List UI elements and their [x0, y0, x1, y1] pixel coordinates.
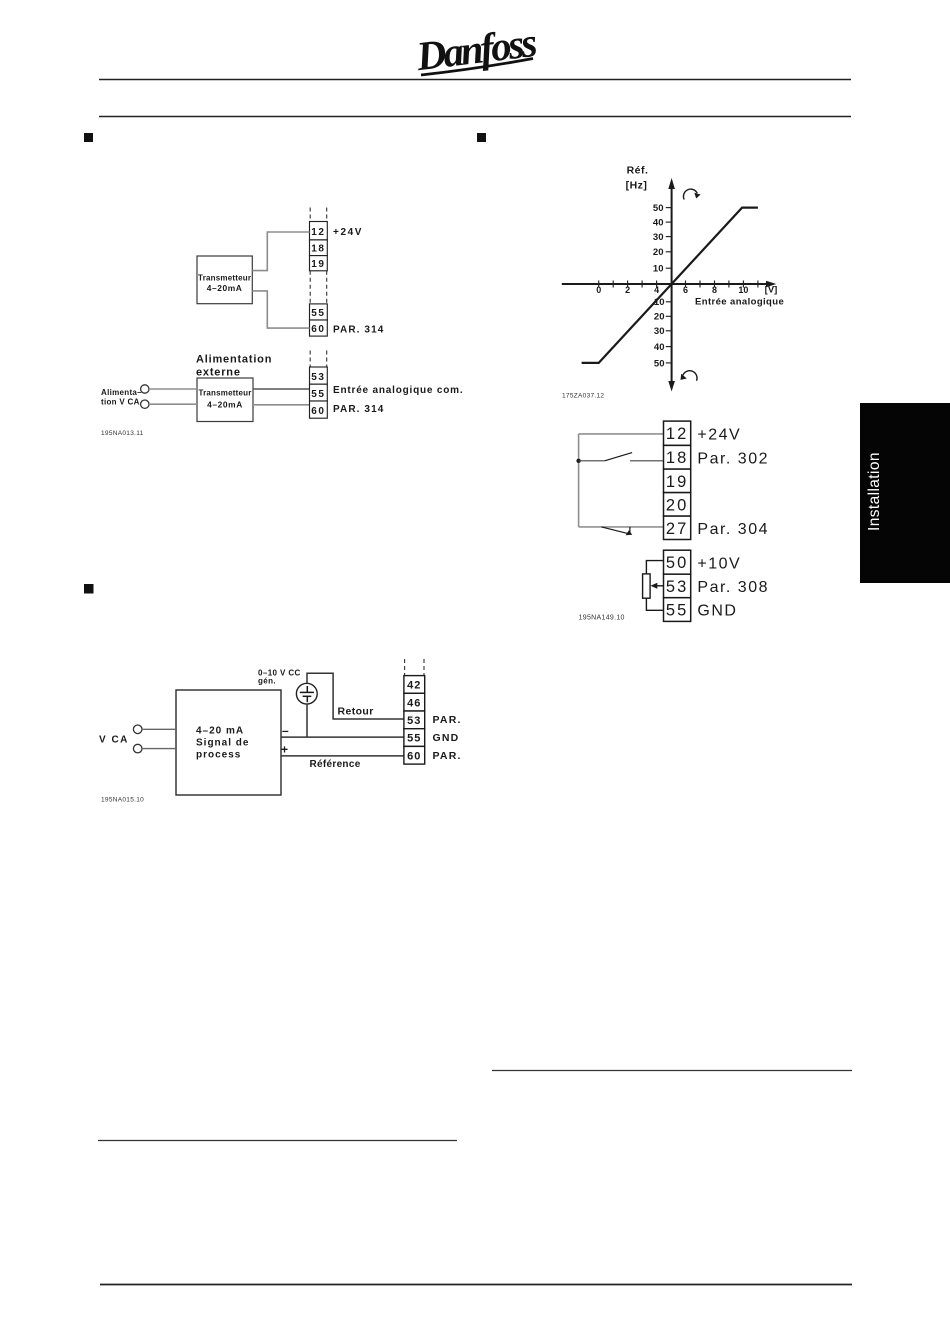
svg-text:Alimenta–: Alimenta–	[101, 388, 142, 397]
svg-text:60: 60	[311, 406, 325, 417]
svg-text:externe: externe	[196, 367, 241, 379]
svg-text:18: 18	[666, 449, 688, 467]
y-axis	[668, 178, 675, 392]
terminal strip D1 dashed middle	[310, 271, 327, 304]
svg-text:40: 40	[654, 342, 665, 353]
terminal 60 (D3)	[404, 746, 425, 764]
svg-text:4–20 mA: 4–20 mA	[196, 726, 244, 737]
input circle lower	[133, 744, 142, 753]
wire generator bottom	[306, 704, 308, 737]
terminal 55 (right)	[664, 598, 691, 622]
terminal 53 (right)	[664, 574, 691, 598]
svg-text:60: 60	[311, 324, 325, 335]
svg-text:55: 55	[407, 733, 421, 745]
terminal 46	[404, 693, 425, 711]
label Alimentation externe	[196, 354, 272, 379]
svg-text:0: 0	[596, 285, 601, 295]
rotation arrow bottom	[681, 371, 698, 381]
svg-text:+10V: +10V	[697, 555, 741, 572]
terminal 53 (D2)	[310, 367, 328, 384]
terminal 12 (right)	[664, 421, 691, 445]
svg-text:[Hz]: [Hz]	[626, 180, 648, 192]
terminal 18 (right)	[664, 445, 691, 469]
transmitter box D2	[197, 378, 253, 422]
svg-text:195NA149.10: 195NA149.10	[579, 615, 625, 622]
process box	[176, 690, 281, 795]
svg-text:4: 4	[654, 285, 659, 295]
svg-text:process: process	[196, 750, 241, 761]
bullet square right	[477, 133, 486, 142]
terminal 55 (D2)	[310, 384, 328, 401]
svg-text:60: 60	[407, 750, 421, 762]
svg-text:10: 10	[653, 264, 664, 275]
rotation arrow top	[683, 189, 700, 199]
y tick labels negative	[654, 297, 665, 369]
svg-text:Signal de: Signal de	[196, 738, 249, 749]
svg-text:50: 50	[654, 358, 665, 369]
terminal 19	[310, 256, 328, 271]
terminal strip D1 dashed top	[310, 208, 327, 222]
svg-text:30: 30	[654, 326, 665, 337]
wire D2 circle2-box	[149, 403, 197, 405]
svg-text:53: 53	[311, 372, 325, 383]
junction dot	[576, 459, 580, 463]
y tick marks	[666, 208, 672, 363]
x tick marks	[599, 281, 758, 288]
terminal strip D2 dashed top	[310, 351, 327, 368]
svg-text:12: 12	[311, 227, 325, 238]
svg-text:19: 19	[666, 473, 688, 491]
axis label Ref [Hz]	[626, 165, 649, 192]
svg-text:GND: GND	[433, 732, 460, 744]
header rule top	[99, 79, 851, 81]
svg-text:Entrée analogique com.: Entrée analogique com.	[333, 385, 463, 396]
svg-text:+24V: +24V	[697, 426, 741, 443]
Installation side tab	[860, 403, 950, 583]
svg-text:Transmetteur: Transmetteur	[198, 389, 251, 398]
x-axis	[562, 281, 777, 288]
svg-text:55: 55	[311, 389, 325, 400]
wire VCA lower	[142, 748, 176, 750]
svg-text:–: –	[282, 724, 289, 738]
potentiometer	[643, 561, 664, 611]
svg-text:20: 20	[653, 247, 664, 258]
svg-text:PAR.: PAR.	[433, 750, 462, 762]
svg-text:Par. 308: Par. 308	[697, 579, 769, 596]
svg-text:50: 50	[653, 203, 664, 214]
svg-text:Réf.: Réf.	[627, 165, 649, 177]
bullet square left 2	[84, 584, 94, 594]
svg-text:tion V CA: tion V CA	[101, 398, 140, 407]
footnote rule left column	[98, 1140, 457, 1142]
svg-text:gén.: gén.	[258, 677, 276, 686]
svg-text:12: 12	[666, 425, 688, 443]
switch 27	[579, 527, 664, 535]
DC generator symbol	[296, 683, 317, 704]
plus wire to 60	[281, 755, 404, 757]
svg-text:20: 20	[654, 312, 665, 323]
wire 12 horizontal	[579, 433, 664, 435]
svg-text:[V]: [V]	[765, 285, 778, 296]
wire D1 upper	[252, 232, 309, 271]
svg-text:53: 53	[666, 578, 688, 596]
Danfoss logo	[413, 19, 539, 79]
terminal 27 (right)	[664, 516, 691, 539]
supply circle lower	[141, 400, 149, 408]
wire generator top to 53	[307, 673, 404, 719]
supply circle upper	[141, 385, 149, 393]
svg-text:50: 50	[666, 554, 688, 572]
svg-text:Entrée analogique: Entrée analogique	[695, 297, 784, 308]
wire +24V bus vertical	[578, 434, 580, 527]
svg-text:+24V: +24V	[333, 227, 363, 238]
terminal 55	[310, 304, 328, 320]
wire VCA upper	[142, 728, 176, 730]
svg-text:195NA013.11: 195NA013.11	[101, 430, 144, 437]
svg-text:GND: GND	[697, 603, 737, 620]
terminal 42	[404, 676, 425, 694]
svg-text:30: 30	[653, 232, 664, 243]
label 0-10 V CC gen	[258, 669, 301, 686]
svg-text:Référence: Référence	[310, 759, 361, 770]
svg-text:Installation: Installation	[866, 452, 883, 531]
svg-text:40: 40	[653, 218, 664, 229]
terminal 60	[310, 320, 328, 336]
svg-text:20: 20	[666, 496, 688, 514]
svg-text:Transmetteur: Transmetteur	[198, 274, 251, 283]
svg-text:42: 42	[407, 680, 421, 692]
svg-text:19: 19	[311, 259, 325, 270]
svg-text:10: 10	[738, 285, 748, 295]
terminal 20 (right)	[664, 493, 691, 516]
svg-text:18: 18	[311, 244, 325, 255]
svg-text:53: 53	[407, 715, 421, 727]
minus wire to 55	[281, 736, 404, 738]
terminal 12	[310, 222, 328, 240]
label Alimentation V CA	[101, 388, 142, 407]
svg-text:175ZA037.12: 175ZA037.12	[562, 393, 604, 400]
svg-text:+: +	[281, 743, 288, 757]
terminal 55 (D3)	[404, 729, 425, 747]
terminal 19 (right)	[664, 469, 691, 493]
bottom rule	[100, 1284, 852, 1286]
svg-text:4–20mA: 4–20mA	[207, 283, 243, 293]
svg-text:27: 27	[666, 520, 688, 538]
svg-text:Alimentation: Alimentation	[196, 354, 272, 366]
svg-text:55: 55	[311, 308, 325, 319]
transmitter box D1	[197, 256, 252, 304]
svg-text:Par. 304: Par. 304	[697, 521, 769, 538]
svg-text:55: 55	[666, 602, 688, 620]
switch 18	[579, 453, 664, 461]
input circle upper	[133, 725, 142, 734]
wire D2 box-55	[253, 388, 310, 390]
svg-text:8: 8	[712, 285, 717, 295]
svg-text:PAR.: PAR.	[433, 714, 462, 726]
terminal strip D3 dashed top	[405, 659, 424, 676]
reference curve	[582, 208, 758, 363]
svg-text:Retour: Retour	[338, 706, 374, 718]
svg-text:6: 6	[683, 285, 688, 295]
svg-text:Par. 302: Par. 302	[697, 450, 769, 467]
svg-text:PAR. 314: PAR. 314	[333, 324, 384, 335]
wire D2 circle1-box	[149, 388, 197, 390]
svg-text:46: 46	[407, 697, 421, 709]
svg-text:V CA: V CA	[99, 735, 129, 746]
footnote rule right column	[492, 1070, 852, 1072]
x tick labels	[596, 285, 748, 295]
header rule bottom	[99, 116, 851, 118]
svg-text:PAR. 314: PAR. 314	[333, 404, 384, 415]
terminal 50 (right)	[664, 550, 691, 574]
bullet square left 1	[84, 133, 93, 142]
svg-text:195NA015.10: 195NA015.10	[101, 797, 144, 804]
terminal 53 (D3)	[404, 711, 425, 729]
terminal 18	[310, 240, 328, 256]
svg-text:2: 2	[625, 285, 630, 295]
wire D2 box-60	[253, 404, 310, 406]
wire D1 lower	[252, 291, 309, 328]
y tick labels positive	[653, 203, 664, 275]
svg-text:4–20mA: 4–20mA	[207, 400, 243, 410]
terminal 60 (D2)	[310, 401, 328, 418]
